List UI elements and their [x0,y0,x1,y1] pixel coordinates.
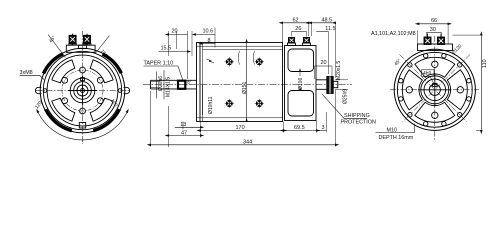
svg-text:TAPER 1:10: TAPER 1:10 [144,61,174,67]
svg-text:170: 170 [236,125,245,131]
right view outer circle [394,49,475,130]
left shaft thread line [151,82,161,88]
end cap window bottom [288,91,314,117]
left view stud right washer [83,43,92,45]
svg-text:DEPTH 16mm: DEPTH 16mm [379,135,414,141]
right view window E [447,70,467,110]
dim Oe10h11 line [202,85,204,115]
right shaft outline [316,80,327,90]
left view side tab right [124,87,130,93]
svg-text:Ø25h9: Ø25h9 [343,89,349,104]
section centerline [143,84,352,86]
left view band dark arc bottom-left [46,109,72,130]
left view label 3xM8 underline leader [20,75,45,79]
left view hub cross [82,76,84,105]
right view window hole E [457,87,463,93]
svg-text:3: 3 [322,125,325,131]
body seam curve 1 [238,51,239,65]
svg-text:110: 110 [482,59,488,68]
svg-text:120°: 120° [34,99,45,111]
right view window W [402,70,422,110]
dim Oe106 arrows [299,72,301,77]
left shaft nut (section) [178,81,185,89]
right view window hole W [406,87,412,93]
left view hole 150deg [62,77,68,83]
left view horizontal centerline [36,90,130,92]
taper leader [144,66,184,81]
left view hub key notch [81,78,85,81]
right view label separator line [417,31,419,45]
left shaft outline [151,80,197,89]
svg-text:8: 8 [208,38,211,44]
extension line x=192 [191,31,193,56]
right view key slot [433,83,437,86]
left view vertical centerline [82,31,84,144]
left view angle dimension arc 120 [38,112,127,140]
right view hub cross [434,73,436,107]
dim Oe20h6 vertical line [156,72,158,99]
svg-text:69.5: 69.5 [294,125,305,131]
end cap window top [288,49,314,72]
main body top inner line [197,45,283,47]
left view stud right nut [84,35,91,43]
through-bolt symbol top-right [255,57,264,66]
left view stud right stem [86,34,88,46]
left view band screw right [118,89,122,93]
right view stud right nut [438,37,445,45]
svg-text:11.5: 11.5 [325,26,335,32]
main body liner line [203,49,283,51]
cap stud right base [303,43,311,46]
cap stud right nut [304,38,310,44]
extension line x=168.5 [168,31,170,56]
svg-text:PROTECTION: PROTECTION [341,120,376,126]
dim Oe151 vertical line [246,43,248,122]
left view band dark arc top-right [103,54,122,73]
svg-text:45°: 45° [393,58,402,67]
svg-text:15.5: 15.5 [161,46,172,52]
right view vertical centerline [434,36,436,140]
right view rim circle [397,52,472,127]
through-bolt symbol top-left [225,57,234,66]
right view shaft circle [429,84,440,95]
svg-text:A1,101,A2,102;M8: A1,101,A2,102;M8 [371,31,416,37]
main body left wall lines [199,43,201,122]
right view diagonal centerline NW-SE [400,55,468,123]
left view band clamp [79,123,85,129]
through-bolt symbol bottom-right [255,99,264,108]
left view inner end-shield circle [47,55,118,126]
left view vent slot SW [52,98,75,121]
left view stud left stem [72,34,74,46]
right shaft extension ticks [335,79,348,81]
left view hole 210deg [62,98,68,104]
svg-text:Ø20h6: Ø20h6 [158,76,164,91]
dim 110 [453,34,482,36]
svg-text:30: 30 [430,27,436,33]
left view vent slot SE [90,98,113,121]
right view stud left nut [424,37,431,45]
left view hole 270deg [80,108,86,114]
left view band dark arc top-left [44,54,63,74]
left view band screw left [43,89,47,93]
right view window hole N [432,61,438,67]
svg-text:20: 20 [321,60,327,66]
dim M14X1.5 vertical line [163,70,165,100]
cap stud left base [288,43,296,46]
right view bolt holes (12) [467,79,471,83]
left view leader upper-right [96,36,110,54]
svg-text:Ø151: Ø151 [242,82,248,94]
right view hub circle outer [421,76,449,104]
left view hub outer circle [70,78,95,103]
right view stud left stem [427,34,429,45]
extension line x=176.5 [176,31,178,49]
body seam curve 2 [253,51,254,65]
right view horizontal centerline [390,89,479,91]
svg-text:M14X1.5: M14X1.5 [166,77,172,97]
left view terminal block [66,45,95,52]
main body outer rect [197,43,283,122]
left view stud left nut [69,35,76,43]
left view hole 330deg [97,98,103,104]
left view leader 45deg upper-left [48,35,66,58]
left view hole 30deg [97,77,103,83]
svg-text:66: 66 [431,18,437,24]
left view band dark arc bottom-right [93,109,119,130]
right view window N [415,57,455,77]
right view diagonal centerline NE-SW [403,55,471,123]
right view terminal flat [418,44,453,51]
cap stud left nut [289,38,295,44]
through-bolt symbol bottom-left [225,99,234,108]
left view vent slot NW [52,60,75,83]
svg-text:Ø106: Ø106 [298,78,304,90]
bottom extension lines [150,91,152,147]
left view bolt circle (dash-dot) [62,70,103,111]
right view label 4h9 (boxed) [422,70,435,77]
right shaft shipping cap (black) [327,77,333,94]
svg-text:Ø10h11: Ø10h11 [208,96,214,114]
svg-text:10.6: 10.6 [203,29,214,35]
svg-text:4h9: 4h9 [423,71,432,77]
right view hub circle inner [424,79,446,101]
right view stud right stem [440,34,442,45]
end cap rect [285,46,317,121]
left view hub shaft circle [77,85,88,96]
left view inspection band circle [43,51,121,129]
chamfer arrows note [207,59,215,63]
left view stud left washer [68,43,77,45]
left view hole 90deg [80,67,86,73]
left view hub middle circle [74,82,92,100]
svg-text:M20x1.5: M20x1.5 [336,61,342,80]
extension line x=187.5 [187,31,189,79]
left view terminal block notch [78,45,86,48]
main body bottom inner line [197,117,283,119]
right view window hole S [432,112,438,118]
left view side tab left [35,87,41,93]
svg-text:45°: 45° [186,81,192,85]
right view window S [415,102,455,122]
left view outer housing circle [40,48,125,133]
svg-text:26: 26 [295,26,301,32]
left view vent slot NE [90,60,113,83]
extension line x=215 [214,28,216,48]
right shaft tip [333,81,338,87]
